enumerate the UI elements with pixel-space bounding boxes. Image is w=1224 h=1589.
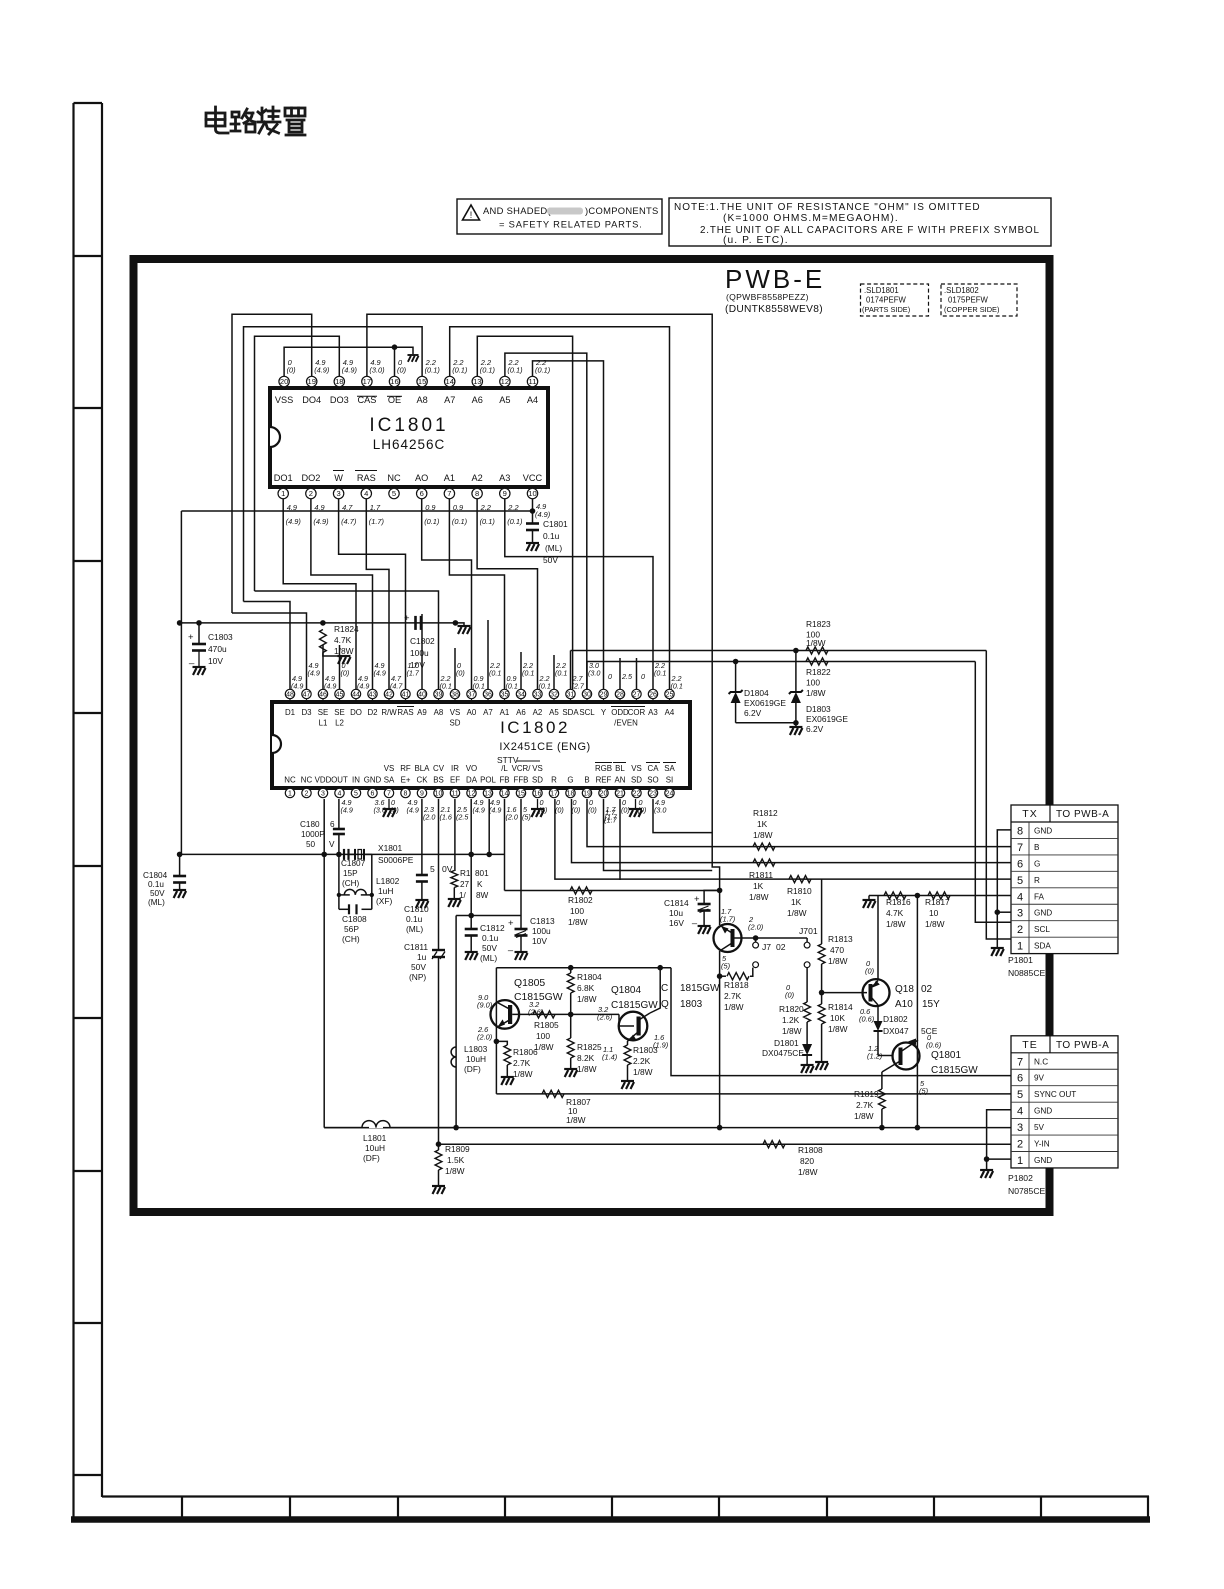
- svg-text:0.1u: 0.1u: [482, 933, 499, 943]
- svg-text:13: 13: [473, 377, 481, 386]
- svg-text:(0.6): (0.6): [926, 1041, 942, 1050]
- svg-text:2.7K: 2.7K: [856, 1100, 874, 1110]
- wire pin20 FB stub: [604, 799, 713, 871]
- svg-text:100u: 100u: [410, 648, 429, 658]
- svg-text:C1810: C1810: [404, 904, 429, 914]
- svg-text:1/8W: 1/8W: [886, 919, 906, 929]
- svg-text:NC: NC: [284, 776, 296, 785]
- svg-text:1.2K: 1.2K: [782, 1015, 800, 1025]
- junction R1809: [436, 1141, 442, 1147]
- svg-text:C1804: C1804: [143, 871, 168, 880]
- svg-text:10u: 10u: [669, 908, 683, 918]
- svg-text:(4.7): (4.7): [341, 517, 357, 526]
- svg-text:100u: 100u: [532, 926, 551, 936]
- transistor Q1805: [491, 1000, 520, 1029]
- svg-text:SA: SA: [384, 776, 395, 785]
- svg-text:R1804: R1804: [577, 972, 602, 982]
- svg-text:18: 18: [335, 377, 343, 386]
- svg-text:5: 5: [430, 864, 435, 874]
- jumper J701: [806, 938, 808, 942]
- svg-text:EF: EF: [450, 776, 460, 785]
- svg-text:W: W: [334, 473, 343, 483]
- wire pin19 B line to TX7: [587, 799, 1011, 847]
- svg-text:N0785CE: N0785CE: [1008, 1186, 1046, 1196]
- svg-text:C1814: C1814: [664, 898, 689, 908]
- junction VCC C1801: [530, 508, 536, 514]
- svg-text:A2: A2: [533, 708, 543, 717]
- wire left bus to IC1802 pin48: [244, 602, 291, 690]
- svg-text:SD: SD: [450, 719, 461, 728]
- svg-text:16: 16: [534, 791, 542, 798]
- svg-text:DO2: DO2: [301, 473, 320, 483]
- svg-text:13: 13: [484, 791, 492, 798]
- svg-text:44: 44: [352, 692, 360, 699]
- inductor L1803: [451, 1047, 456, 1067]
- svg-text:BL: BL: [615, 764, 625, 773]
- wire mid rail to L1803: [455, 916, 457, 1128]
- junction Q1805 emitter R1806: [494, 1039, 500, 1045]
- svg-text:50V: 50V: [411, 962, 426, 972]
- wire pin13 to 5V rail: [488, 799, 490, 854]
- svg-text:1: 1: [1017, 941, 1023, 953]
- resistor R1823 line to SDA: [571, 650, 987, 652]
- wire stub IC1802 pin34: [520, 652, 522, 689]
- resistor R1820: [806, 968, 808, 1002]
- resistor R1806: [496, 1041, 507, 1045]
- svg-text:(QPWBF8558PEZZ): (QPWBF8558PEZZ): [726, 292, 809, 302]
- svg-text:CV: CV: [433, 764, 445, 773]
- connector TX table P1801: [1011, 805, 1118, 954]
- svg-text:D1804: D1804: [744, 688, 769, 698]
- ground at cap bus: [455, 623, 464, 625]
- inductor L1802 parallel: [338, 854, 340, 895]
- wire left bus to IC1802 pin39: [255, 591, 439, 689]
- svg-text:A3: A3: [648, 708, 658, 717]
- capacitor C1812: [470, 916, 472, 929]
- resistor R1810: [789, 876, 811, 883]
- svg-text:18: 18: [567, 791, 575, 798]
- svg-text:(0.1: (0.1: [671, 681, 683, 690]
- ground at pin16 bus: [407, 355, 418, 362]
- svg-text:38: 38: [451, 692, 459, 699]
- svg-text:A8: A8: [416, 395, 427, 405]
- svg-text:1/8W: 1/8W: [513, 1069, 533, 1079]
- svg-text:(0.1): (0.1): [480, 517, 496, 526]
- ground below IC1802 pin 7: [388, 799, 390, 809]
- svg-text:SI: SI: [666, 776, 673, 785]
- svg-text:R1805: R1805: [534, 1020, 559, 1030]
- svg-text:CK: CK: [417, 776, 429, 785]
- wire A1 pin7 to IC1802 pin35: [449, 499, 504, 689]
- svg-text:VS: VS: [631, 764, 642, 773]
- svg-text:TO PWB-A: TO PWB-A: [1056, 809, 1109, 820]
- wire pin10 long column with C1811: [438, 799, 440, 949]
- svg-text:100: 100: [806, 678, 820, 688]
- svg-text:NC: NC: [301, 776, 313, 785]
- svg-text:R1812: R1812: [753, 808, 778, 818]
- svg-text:_: _: [691, 914, 698, 924]
- svg-text:(2.0: (2.0: [423, 812, 435, 821]
- svg-text:(0): (0): [287, 366, 297, 375]
- svg-text:5V: 5V: [1034, 1123, 1045, 1132]
- svg-text:R1810: R1810: [787, 886, 812, 896]
- transistor Q1802 A1015Y: [863, 979, 890, 1006]
- svg-text:41: 41: [402, 692, 410, 699]
- svg-text:A1: A1: [500, 708, 510, 717]
- wire Q1802 collector to D1802: [877, 1005, 879, 1021]
- svg-text:(4.9): (4.9): [286, 517, 302, 526]
- wire pin19 to left bus: [232, 314, 312, 613]
- svg-text:A0: A0: [467, 708, 477, 717]
- svg-text:1/8W: 1/8W: [787, 908, 807, 918]
- page left ruler bar: [74, 103, 103, 1520]
- svg-text:C1807: C1807: [341, 859, 366, 868]
- svg-text:1/8W: 1/8W: [577, 1064, 597, 1074]
- svg-text:100: 100: [536, 1031, 550, 1041]
- svg-text:REF: REF: [596, 776, 612, 785]
- wire Q1803 collector to 5V line: [719, 976, 721, 1127]
- svg-text:27: 27: [460, 880, 470, 889]
- crystal X1801: [349, 853, 356, 855]
- svg-text:19: 19: [307, 377, 315, 386]
- svg-text:Q1805: Q1805: [514, 978, 545, 989]
- transistor Q1804: [619, 1014, 634, 1026]
- svg-text:(4.9: (4.9: [374, 668, 386, 677]
- resistor R1808: [763, 1141, 785, 1148]
- svg-text:DX047: DX047: [883, 1026, 909, 1036]
- svg-text:9: 9: [420, 791, 424, 798]
- svg-text:12: 12: [501, 377, 509, 386]
- svg-text:_: _: [425, 613, 432, 623]
- wire A3 pin9 to IC1802 pin26: [505, 499, 653, 689]
- 5V bottom rail with L1801: [324, 1127, 1011, 1129]
- capacitor C1806: [338, 799, 340, 828]
- svg-text:OUT: OUT: [331, 776, 348, 785]
- svg-text:B: B: [584, 776, 589, 785]
- svg-text:C1803: C1803: [208, 632, 233, 642]
- svg-text:(0): (0): [456, 668, 465, 677]
- svg-text:5: 5: [1017, 875, 1023, 887]
- svg-text:26: 26: [649, 692, 657, 699]
- svg-text:3: 3: [336, 489, 340, 498]
- svg-text:RAS: RAS: [357, 473, 376, 483]
- junction R1816 R1817: [915, 893, 921, 899]
- svg-text:VS: VS: [532, 764, 543, 773]
- svg-text:(0.1): (0.1): [425, 366, 441, 375]
- svg-text:C1815GW: C1815GW: [931, 1065, 978, 1076]
- junction pin16 ground bus: [392, 344, 398, 350]
- svg-text:D1803: D1803: [806, 704, 831, 714]
- capacitor C1810 on pin9 wire: [421, 799, 423, 874]
- svg-text:IR: IR: [451, 764, 459, 773]
- svg-text:801: 801: [475, 869, 489, 878]
- svg-text:J701: J701: [799, 926, 818, 936]
- svg-text:R1823: R1823: [806, 619, 831, 629]
- wire stub IC1802 pin38: [454, 648, 456, 689]
- svg-text:(2.0: (2.0: [506, 812, 518, 821]
- svg-text:R1825: R1825: [577, 1042, 602, 1052]
- svg-text:(CH): (CH): [342, 934, 360, 944]
- svg-text:D1802: D1802: [883, 1014, 908, 1024]
- svg-text:2: 2: [1017, 1139, 1023, 1151]
- svg-text:(COPPER SIDE): (COPPER SIDE): [944, 305, 999, 314]
- svg-text:20: 20: [600, 791, 608, 798]
- svg-text:2.2K: 2.2K: [633, 1056, 651, 1066]
- wire IC1802 pin30 up to R1822 line: [586, 662, 588, 690]
- junction 5V Q1801 collector: [915, 1125, 921, 1131]
- svg-text:(0): (0): [621, 805, 630, 814]
- svg-text:(4.9: (4.9: [324, 681, 336, 690]
- svg-text:(ML): (ML): [545, 543, 562, 553]
- svg-text:(0.1: (0.1: [555, 668, 567, 677]
- wire DO2 pin2 to IC1802 pin43: [311, 499, 373, 689]
- svg-text:0: 0: [641, 672, 645, 681]
- svg-text:1/8W: 1/8W: [566, 1115, 586, 1125]
- main schematic border: [134, 259, 1050, 1212]
- resistor R1816: [884, 892, 906, 899]
- SLD1802 dashed box: [941, 284, 1017, 316]
- wire stub IC1802 pin36: [487, 620, 489, 689]
- svg-text:36: 36: [484, 692, 492, 699]
- svg-text:2: 2: [1017, 924, 1023, 936]
- svg-text:100: 100: [570, 906, 584, 916]
- wire Q1803 base to J702 J701: [735, 937, 808, 939]
- SYNC OUT line R1807: [496, 1093, 1011, 1095]
- capacitor C1808 parallel: [338, 895, 340, 909]
- svg-text:(4.7: (4.7: [390, 681, 403, 690]
- svg-text:/L: /L: [501, 764, 508, 773]
- svg-text:P1801: P1801: [1008, 955, 1033, 965]
- svg-text:R1816: R1816: [886, 897, 911, 907]
- svg-text:(0.1: (0.1: [506, 681, 518, 690]
- svg-text:0.1u: 0.1u: [148, 880, 164, 889]
- svg-text:(4.9: (4.9: [291, 681, 303, 690]
- svg-text:N.C: N.C: [1034, 1057, 1048, 1066]
- svg-text:27: 27: [633, 692, 641, 699]
- svg-text:R1808: R1808: [798, 1145, 823, 1155]
- svg-text:(5): (5): [721, 962, 731, 971]
- IC U1801 body LH64256C: [270, 388, 548, 487]
- transistor Q1801 C1815GW: [878, 1055, 892, 1057]
- wire Q1801 collector column: [916, 896, 918, 1128]
- svg-text:.SLD1802: .SLD1802: [944, 286, 979, 295]
- svg-text:(4.9: (4.9: [357, 681, 369, 690]
- svg-text:D1801: D1801: [774, 1038, 799, 1048]
- svg-text:10: 10: [528, 489, 536, 498]
- svg-text:1/8W: 1/8W: [854, 1111, 874, 1121]
- junction pin13 5V rail: [486, 852, 492, 858]
- svg-text:0.1u: 0.1u: [543, 531, 560, 541]
- svg-text:A5: A5: [499, 395, 510, 405]
- ground below IC1802 pin 16: [537, 799, 539, 809]
- svg-text:(2.0): (2.0): [477, 1033, 493, 1042]
- svg-text:(4.9: (4.9: [473, 805, 485, 814]
- wire pin13 to IC1802 pin31 SDA: [477, 336, 572, 689]
- svg-text:D3: D3: [301, 708, 312, 717]
- wire stub IC1802 pin40: [421, 614, 423, 689]
- svg-text:D1: D1: [285, 708, 295, 717]
- wire Q1802 emitter up: [877, 896, 879, 980]
- svg-text:47: 47: [303, 692, 311, 699]
- svg-text:(0): (0): [341, 668, 350, 677]
- wire left bus to IC1802 pin47: [232, 613, 307, 689]
- svg-text:R: R: [1034, 876, 1040, 885]
- svg-text:SCL: SCL: [1034, 925, 1050, 934]
- svg-text:AN: AN: [615, 776, 626, 785]
- svg-text:(PARTS SIDE): (PARTS SIDE): [862, 305, 910, 314]
- svg-text:1/8W: 1/8W: [724, 1002, 744, 1012]
- svg-text:R1813: R1813: [828, 934, 853, 944]
- svg-text:4: 4: [338, 791, 342, 798]
- junction R1804 R1825 divider: [568, 1012, 574, 1018]
- svg-text:1: 1: [288, 791, 292, 798]
- svg-text:N0885CE: N0885CE: [1008, 968, 1046, 978]
- svg-text:1000P: 1000P: [301, 830, 325, 839]
- svg-text:!: !: [470, 210, 473, 220]
- svg-text:SDA: SDA: [1034, 942, 1051, 951]
- svg-text:(K=1000 OHMS.M=MEGAOHM).: (K=1000 OHMS.M=MEGAOHM).: [723, 213, 899, 224]
- ground TX: [991, 948, 1004, 956]
- svg-text:33: 33: [534, 692, 542, 699]
- svg-text:(9.0): (9.0): [477, 1001, 493, 1010]
- svg-text:.SLD1801: .SLD1801: [864, 286, 899, 295]
- diode D1804 zener: [735, 662, 737, 693]
- svg-text:1K: 1K: [757, 819, 768, 829]
- svg-text:(3.0: (3.0: [588, 668, 600, 677]
- svg-text:IC1801: IC1801: [369, 415, 448, 436]
- svg-text:G: G: [1034, 859, 1040, 868]
- svg-text:DO4: DO4: [302, 395, 321, 405]
- wire pin15 to mid rail: [520, 799, 522, 916]
- Y-IN line: [439, 1143, 1012, 1145]
- svg-text:10: 10: [929, 908, 939, 918]
- svg-text:24: 24: [666, 791, 674, 798]
- svg-text:(0.1): (0.1): [507, 517, 523, 526]
- svg-text:(4.9): (4.9): [313, 517, 329, 526]
- junction TX gnd pin3: [995, 909, 1001, 915]
- svg-text:R1822: R1822: [806, 667, 831, 677]
- svg-text:(1.7): (1.7): [720, 915, 736, 924]
- svg-text:(4.9): (4.9): [342, 366, 358, 375]
- FA line: [869, 895, 1011, 897]
- svg-text:PWB-E: PWB-E: [725, 264, 825, 294]
- svg-text:48: 48: [286, 692, 294, 699]
- svg-text:(4.9: (4.9: [341, 805, 353, 814]
- svg-text:7: 7: [1017, 1056, 1023, 1068]
- ground under D1803: [789, 727, 802, 735]
- svg-text:15Y: 15Y: [922, 999, 940, 1010]
- jumper J702: [755, 938, 757, 942]
- svg-text:1/8W: 1/8W: [828, 1024, 848, 1034]
- svg-text:1K: 1K: [753, 881, 764, 891]
- svg-text:R1809: R1809: [445, 1144, 470, 1154]
- svg-text:SCL: SCL: [579, 708, 595, 717]
- resistor R1818: [717, 973, 723, 979]
- wire TE pin4 gnd: [987, 1110, 1011, 1169]
- svg-text:1.5K: 1.5K: [447, 1155, 465, 1165]
- svg-text:22: 22: [633, 791, 641, 798]
- svg-text:1/8W: 1/8W: [568, 917, 588, 927]
- svg-text:1/8W: 1/8W: [633, 1067, 653, 1077]
- capacitor C1813 electrolytic: [520, 916, 522, 929]
- svg-text:(4.9): (4.9): [314, 366, 330, 375]
- svg-text:R1818: R1818: [724, 980, 749, 990]
- svg-text:C: C: [661, 983, 668, 994]
- wire A0 pin6 to IC1802 pin37: [422, 499, 472, 689]
- svg-text:R1824: R1824: [334, 624, 359, 634]
- svg-text:J7: J7: [762, 942, 771, 952]
- svg-text:820: 820: [800, 1156, 814, 1166]
- svg-text:TX: TX: [1022, 808, 1037, 820]
- svg-text:10V: 10V: [410, 660, 425, 670]
- wire pin14 to IC1802 pin25: [450, 327, 670, 689]
- svg-text:SDA: SDA: [562, 708, 579, 717]
- svg-text:56P: 56P: [344, 924, 359, 934]
- svg-text:SE: SE: [334, 708, 345, 717]
- svg-text:A6: A6: [516, 708, 526, 717]
- wire SDA down to TX pin1: [986, 651, 1011, 940]
- svg-text:G: G: [567, 776, 573, 785]
- svg-text:EX0619GE: EX0619GE: [806, 714, 848, 724]
- resistor R1804: [570, 968, 572, 973]
- svg-text:39: 39: [435, 692, 443, 699]
- wire cap bus rail: [180, 622, 456, 624]
- svg-text:9V: 9V: [1034, 1074, 1045, 1083]
- svg-text:(1.9): (1.9): [653, 1041, 669, 1050]
- svg-text:SD: SD: [631, 776, 642, 785]
- svg-text:SA: SA: [664, 764, 675, 773]
- svg-text:DX0475CE: DX0475CE: [762, 1048, 804, 1058]
- wire TX pin8 gnd: [997, 830, 1011, 947]
- svg-text:1/8W: 1/8W: [925, 919, 945, 929]
- svg-text:37: 37: [468, 692, 476, 699]
- svg-text:Q1804: Q1804: [611, 985, 641, 996]
- resistor R1811: [753, 859, 775, 866]
- wire stub IC1802 pin32: [553, 655, 555, 689]
- svg-text:V: V: [329, 840, 335, 849]
- svg-text:+: +: [188, 632, 194, 643]
- wire stub IC1802 pin45: [339, 645, 341, 689]
- svg-text:R1814: R1814: [828, 1002, 853, 1012]
- wire pin18 G line to TX6: [572, 799, 1012, 863]
- junction 5V Q1803: [717, 1125, 723, 1131]
- IC1802 top pins 48-25: [669, 699, 671, 702]
- wire W pin3 to IC1802 pin41: [339, 499, 406, 689]
- svg-text:35: 35: [501, 692, 509, 699]
- svg-text:(4.9: (4.9: [308, 668, 320, 677]
- svg-text:(4.9): (4.9): [535, 510, 551, 519]
- svg-text:FA: FA: [1034, 892, 1045, 901]
- svg-text:Q18: Q18: [895, 984, 914, 995]
- svg-text:10: 10: [435, 791, 443, 798]
- svg-text:VCC: VCC: [523, 473, 543, 483]
- svg-text:2: 2: [309, 489, 313, 498]
- svg-text:(2.0): (2.0): [748, 923, 764, 932]
- transistor Q1803: [719, 890, 721, 925]
- svg-text:COR: COR: [628, 708, 646, 717]
- svg-text:29: 29: [600, 692, 608, 699]
- svg-text:10uH: 10uH: [365, 1143, 385, 1153]
- svg-text:BLA: BLA: [415, 764, 431, 773]
- svg-text:A10: A10: [895, 999, 913, 1010]
- svg-text:A7: A7: [444, 395, 455, 405]
- wire pin10 to VCC rail: [532, 499, 534, 511]
- svg-text:8: 8: [475, 489, 479, 498]
- svg-text:470u: 470u: [208, 644, 227, 654]
- svg-text:ODD: ODD: [611, 708, 629, 717]
- resistor R1801 on pin11 wire: [454, 799, 456, 871]
- svg-text:14: 14: [501, 791, 509, 798]
